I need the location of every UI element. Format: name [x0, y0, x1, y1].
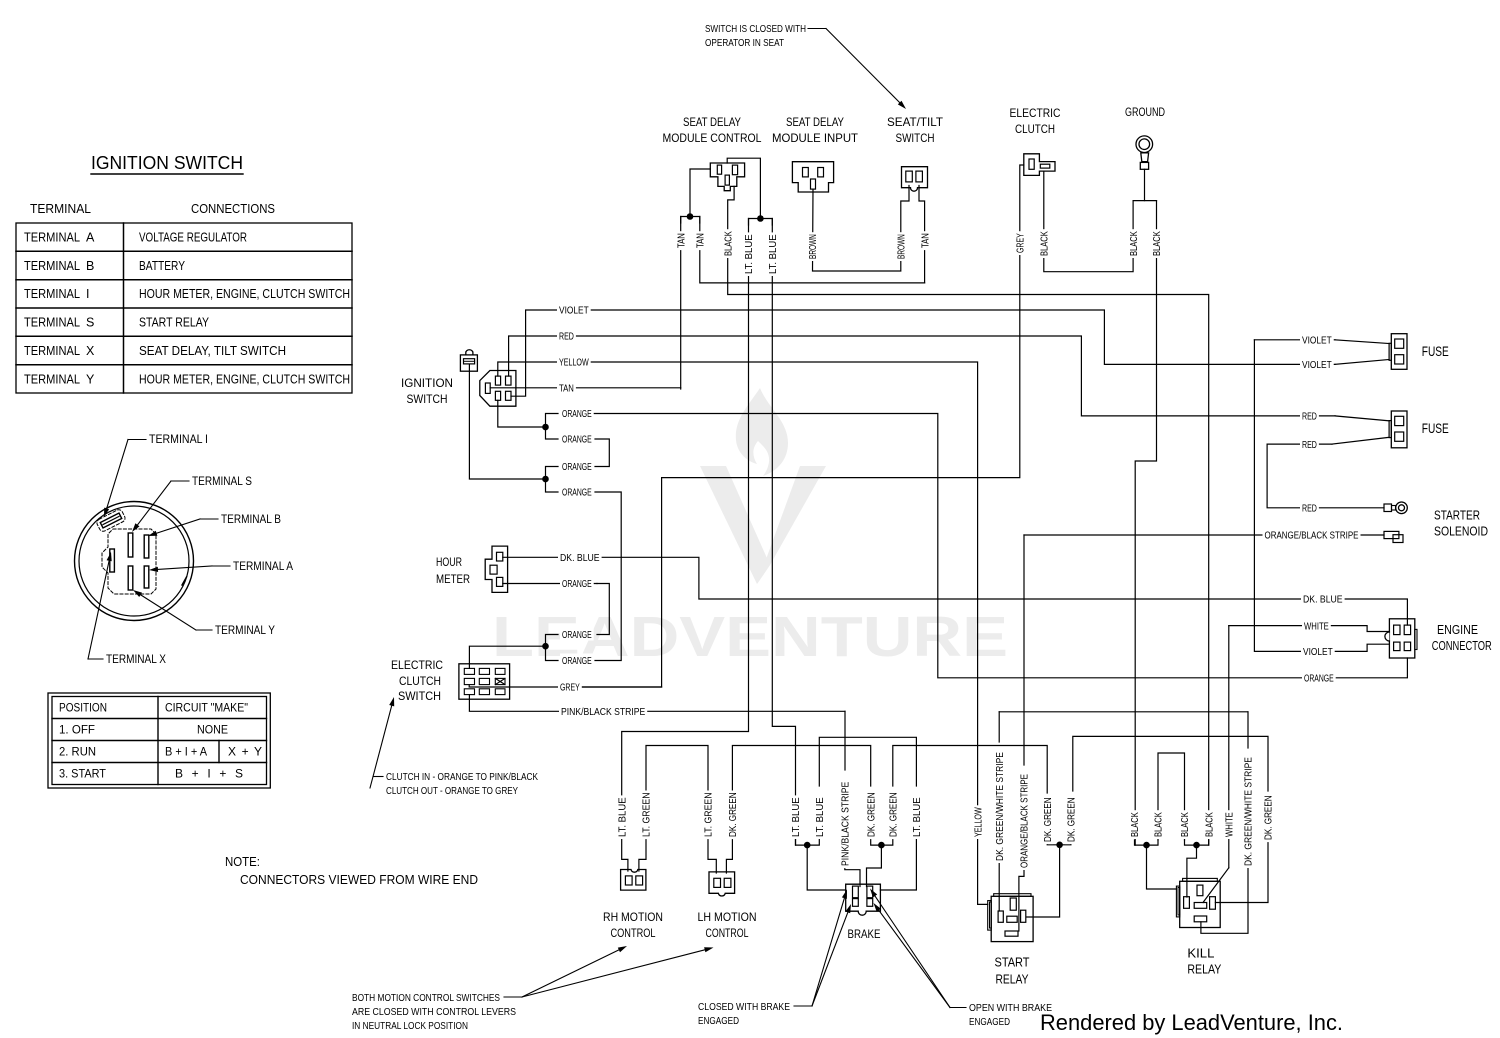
wire lt green lh into connector: [708, 836, 716, 873]
fuse 1: [1389, 334, 1407, 370]
svg-text:HOUR: HOUR: [436, 555, 462, 569]
electric clutch switch connector: [459, 664, 510, 699]
svg-text:B + I + A: B + I + A: [165, 745, 207, 759]
svg-text:TAN: TAN: [559, 383, 574, 395]
svg-text:ELECTRIC: ELECTRIC: [391, 658, 443, 672]
svg-text:TERMINAL: TERMINAL: [30, 201, 91, 216]
svg-text:TERMINAL X: TERMINAL X: [106, 654, 166, 666]
label brown seat tilt: [895, 232, 908, 261]
label pink/black stripe brake: [839, 780, 852, 868]
svg-text:LT. BLUE: LT. BLUE: [814, 797, 826, 837]
svg-text:RED: RED: [1302, 503, 1317, 515]
svg-text:B: B: [86, 259, 94, 273]
label orange 2: [560, 432, 594, 446]
wire dk green pair elbows start: [1047, 842, 1071, 845]
label white engine: [1302, 619, 1331, 633]
svg-text:ORANGE: ORANGE: [562, 461, 592, 473]
wire violet fuse1 top: [1254, 339, 1335, 341]
engine connector: [1385, 619, 1417, 658]
svg-text:HOUR METER, ENGINE, CLUTCH SWI: HOUR METER, ENGINE, CLUTCH SWITCH: [139, 287, 350, 301]
label tan col1: [675, 231, 688, 250]
wire red to starter solenoid: [1267, 444, 1384, 508]
label violet: [557, 303, 591, 317]
position / circuit make table: [48, 693, 270, 788]
label pink/black stripe: [559, 704, 647, 718]
label lt blue rh: [616, 795, 629, 839]
brake connector: [846, 884, 881, 915]
label yellow: [557, 355, 591, 369]
wire lt blue single into brake: [880, 836, 916, 890]
svg-text:FUSE: FUSE: [1422, 421, 1449, 436]
svg-text:PINK/BLACK STRIPE: PINK/BLACK STRIPE: [561, 706, 645, 718]
wire lt blue bridge brake pair: [819, 737, 916, 786]
svg-text:LT. BLUE: LT. BLUE: [790, 797, 802, 837]
junction black kill right: [1193, 842, 1200, 849]
svg-text:VIOLET: VIOLET: [1302, 335, 1332, 347]
key symbol: [460, 350, 477, 371]
svg-text:DK. GREEN/WHITE STRIPE: DK. GREEN/WHITE STRIPE: [1243, 757, 1255, 866]
label violet fuse bottom: [1300, 357, 1334, 371]
wire dk green into brake right pin: [867, 845, 882, 886]
label lt green rh: [640, 791, 653, 840]
wire dk green-white start: [998, 712, 1000, 742]
svg-text:YELLOW: YELLOW: [559, 357, 589, 369]
circle notch: [182, 577, 187, 585]
svg-text:OPERATOR IN SEAT: OPERATOR IN SEAT: [705, 37, 784, 49]
svg-text:ORANGE/BLACK STRIPE: ORANGE/BLACK STRIPE: [1265, 530, 1359, 542]
label tan col2: [694, 231, 707, 250]
svg-text:METER: METER: [436, 572, 470, 586]
svg-text:1. OFF: 1. OFF: [59, 723, 95, 737]
svg-text:TERMINAL B: TERMINAL B: [221, 514, 281, 526]
wire white engine-kill: [1228, 626, 1230, 810]
svg-text:A: A: [86, 231, 95, 245]
wire tan seat tilt: [919, 186, 925, 283]
svg-text:CONNECTIONS: CONNECTIONS: [191, 201, 275, 216]
label dk green/white start: [993, 750, 1006, 863]
svg-text:RELAY: RELAY: [1187, 963, 1222, 977]
svg-text:CONTROL: CONTROL: [706, 926, 749, 940]
terminal Y pin: [128, 566, 133, 590]
junction orange c: [542, 643, 549, 650]
svg-text:ORANGE: ORANGE: [562, 578, 592, 590]
wire orange 1-2 left link: [546, 414, 559, 440]
wire grey electric clutch: [580, 165, 1024, 687]
label orange 5: [560, 577, 594, 591]
wire pink black from clutch switch: [469, 695, 845, 712]
wire yellow ignition: [498, 362, 988, 904]
svg-text:DK. BLUE: DK. BLUE: [1303, 594, 1343, 606]
terminal X pin: [110, 549, 115, 572]
svg-text:RED: RED: [1302, 439, 1317, 451]
wire lt blue right column: [772, 219, 795, 846]
starter solenoid spade terminal: [1384, 531, 1403, 542]
wire tan right down and across: [700, 217, 925, 283]
wire black n-bridge kill: [1158, 753, 1185, 840]
label dk green kill: [1262, 794, 1275, 843]
label lt green lh: [702, 791, 715, 840]
kill relay connector: [1176, 878, 1220, 927]
junction dk green start: [1056, 842, 1063, 849]
svg-text:TERMINAL: TERMINAL: [24, 344, 80, 358]
svg-text:LT. BLUE: LT. BLUE: [743, 234, 755, 274]
svg-text:BLACK: BLACK: [1203, 812, 1215, 837]
svg-text:STARTER: STARTER: [1434, 508, 1480, 523]
junction lt blue split: [757, 215, 764, 222]
junction orange b: [542, 476, 549, 483]
wire orange feed from ignition: [498, 400, 546, 427]
wire black into kill relay pin: [1187, 845, 1197, 897]
wire dk green-white kill below label: [1201, 867, 1248, 933]
svg-text:SWITCH: SWITCH: [407, 392, 448, 406]
junction dk green brake: [878, 842, 885, 849]
watermark logo flame V: [700, 388, 826, 584]
svg-text:ORANGE: ORANGE: [562, 487, 592, 499]
svg-text:CLUTCH: CLUTCH: [1015, 122, 1055, 136]
arrow to clutch switch: [370, 706, 392, 788]
svg-text:DK. GREEN: DK. GREEN: [888, 792, 900, 837]
ground ring terminal: [1136, 136, 1153, 169]
svg-text:BLACK: BLACK: [1151, 231, 1163, 256]
svg-text:BLACK: BLACK: [1153, 812, 1165, 837]
label orange 3: [560, 460, 594, 474]
svg-text:TERMINAL: TERMINAL: [24, 259, 80, 273]
wire tan left down to ignition tan line: [680, 217, 682, 390]
svg-text:SOLENOID: SOLENOID: [1434, 524, 1488, 539]
svg-text:BLACK: BLACK: [722, 231, 734, 256]
label orange 7: [560, 654, 594, 668]
svg-text:RELAY: RELAY: [996, 973, 1030, 987]
label yellow start relay: [972, 805, 985, 839]
label black kill 4: [1203, 810, 1216, 839]
terminal A pin: [144, 566, 149, 588]
label black clutch: [1038, 229, 1051, 258]
label lt blue col2: [766, 232, 779, 276]
label red solenoid: [1300, 501, 1319, 515]
wire dk green into start relay: [1027, 845, 1060, 917]
junction tan split: [687, 213, 694, 220]
label tan seat tilt: [919, 231, 932, 250]
label black ground 1: [1127, 229, 1140, 258]
svg-text:TERMINAL: TERMINAL: [24, 372, 80, 386]
svg-text:BLACK: BLACK: [1128, 231, 1140, 256]
wire tan split bar: [681, 217, 700, 224]
wire red fuse2 top slant: [1335, 416, 1389, 421]
svg-text:SEAT DELAY: SEAT DELAY: [683, 115, 741, 129]
terminal B pin: [144, 535, 149, 558]
svg-text:GROUND: GROUND: [1125, 105, 1165, 119]
wire orange-black label to spade: [1357, 534, 1384, 536]
svg-text:POSITION: POSITION: [59, 701, 107, 715]
label black ground 2: [1151, 229, 1164, 258]
label dk blue engine: [1301, 592, 1345, 606]
svg-text:LT. GREEN: LT. GREEN: [703, 792, 715, 837]
svg-text:ENGAGED: ENGAGED: [969, 1016, 1010, 1028]
seat delay module input connector: [792, 162, 833, 192]
svg-text:X + Y: X + Y: [228, 745, 262, 759]
svg-text:IGNITION SWITCH: IGNITION SWITCH: [91, 152, 243, 173]
svg-text:ORANGE: ORANGE: [562, 655, 592, 667]
svg-text:LT. BLUE: LT. BLUE: [616, 797, 628, 837]
wire dk green bridge brake-start: [893, 746, 1047, 794]
svg-text:TERMINAL I: TERMINAL I: [149, 434, 208, 446]
label orange engine: [1302, 671, 1336, 685]
svg-text:BLACK: BLACK: [1039, 231, 1051, 256]
wire lt blue left column: [622, 219, 749, 872]
wire dk blue hour meter: [503, 557, 1408, 625]
svg-text:BLACK: BLACK: [1129, 812, 1141, 837]
svg-text:DK. BLUE: DK. BLUE: [560, 552, 600, 564]
svg-text:DK. GREEN/WHITE STRIPE: DK. GREEN/WHITE STRIPE: [994, 752, 1006, 861]
svg-text:3. START: 3. START: [59, 767, 107, 781]
svg-text:Y: Y: [86, 372, 95, 386]
wire lt blue into brake left: [807, 845, 846, 890]
wire violet fuse-engine trunk: [1254, 340, 1303, 652]
start relay connector: [988, 894, 1033, 942]
wire black into kill relay left: [1147, 845, 1177, 889]
seat/tilt switch connector: [902, 167, 928, 192]
label white kill: [1223, 810, 1236, 839]
wire violet into engine connector: [1333, 644, 1389, 651]
svg-text:DK. GREEN: DK. GREEN: [865, 792, 877, 837]
svg-text:VIOLET: VIOLET: [559, 305, 589, 317]
wire orange 4-7 right link: [595, 492, 621, 661]
label lt blue brake 2: [813, 795, 826, 839]
svg-text:TERMINAL: TERMINAL: [24, 287, 80, 301]
svg-text:MODULE CONTROL: MODULE CONTROL: [663, 131, 762, 145]
wire orange-black to spade: [1024, 534, 1264, 536]
terminal connections table: [16, 223, 352, 393]
wire orange1 long: [592, 414, 1304, 678]
wire white into engine connector: [1330, 626, 1389, 632]
wire dk green pair elbows brake: [871, 836, 893, 845]
label dk green lh: [726, 791, 739, 840]
svg-text:SEAT DELAY: SEAT DELAY: [786, 115, 844, 129]
svg-text:BLACK: BLACK: [1179, 812, 1191, 837]
svg-text:DK. GREEN: DK. GREEN: [1263, 795, 1275, 840]
wire module control left to junction: [690, 169, 710, 217]
svg-text:VIOLET: VIOLET: [1302, 359, 1332, 371]
svg-text:ORANGE: ORANGE: [562, 408, 592, 420]
label lt blue col1: [743, 232, 756, 276]
junction orange a: [542, 424, 549, 431]
wire pink black down to brake: [844, 711, 846, 770]
label grey clutch: [1014, 231, 1027, 255]
wire violet ignition: [511, 310, 1335, 396]
wire ground stem: [1144, 169, 1146, 200]
wire orange-black stripe column: [1023, 535, 1025, 765]
svg-text:CONNECTORS VIEWED FROM WIRE EN: CONNECTORS VIEWED FROM WIRE END: [240, 873, 478, 887]
wire brown module input: [813, 186, 910, 272]
wire tan ignition: [490, 387, 681, 389]
label dk green start 1: [1041, 796, 1054, 845]
svg-text:LT. BLUE: LT. BLUE: [767, 234, 779, 274]
svg-text:VIOLET: VIOLET: [1303, 646, 1333, 658]
wire orange 6-7 left link to clutch switch: [546, 635, 559, 661]
svg-text:VOLTAGE REGULATOR: VOLTAGE REGULATOR: [139, 231, 247, 245]
svg-text:I: I: [86, 287, 89, 301]
svg-text:NONE: NONE: [197, 723, 228, 737]
lh motion control connector: [709, 872, 735, 896]
wire white diagonal into kill relay: [1203, 868, 1229, 903]
wire lt blue split bar: [749, 219, 773, 226]
svg-text:CLUTCH IN - ORANGE TO PINK/BLA: CLUTCH IN - ORANGE TO PINK/BLACK: [386, 771, 538, 783]
svg-text:CLUTCH OUT - ORANGE TO GREY: CLUTCH OUT - ORANGE TO GREY: [386, 785, 518, 797]
svg-text:2. RUN: 2. RUN: [59, 745, 96, 759]
fuse 2: [1389, 411, 1407, 448]
wire orange 3-4 left link: [546, 467, 559, 493]
junction lt blue brake: [804, 842, 811, 849]
wire violet fuse1 top slant: [1335, 340, 1389, 344]
svg-text:Rendered by LeadVenture, Inc.: Rendered by LeadVenture, Inc.: [1040, 1010, 1343, 1035]
svg-text:START RELAY: START RELAY: [139, 316, 210, 330]
dashed terminal region: [102, 529, 156, 594]
svg-text:GREY: GREY: [1015, 233, 1027, 253]
svg-text:TAN: TAN: [675, 233, 687, 248]
svg-text:KILL: KILL: [1187, 947, 1214, 961]
wire dk green kill below label: [1215, 840, 1268, 903]
svg-text:ENGAGED: ENGAGED: [698, 1015, 739, 1027]
wire lt green bridge rh-lh: [646, 746, 708, 837]
svg-text:TERMINAL: TERMINAL: [24, 316, 80, 330]
ignition switch face inner circle: [79, 506, 189, 616]
wire key to orange junction: [469, 364, 545, 479]
wire to electric clutch switch top: [469, 646, 545, 668]
svg-text:LH MOTION: LH MOTION: [698, 910, 757, 924]
label orange 4: [560, 485, 594, 499]
svg-text:ORANGE/BLACK STRIPE: ORANGE/BLACK STRIPE: [1019, 774, 1031, 868]
svg-text:SWITCH: SWITCH: [398, 689, 441, 703]
svg-text:RED: RED: [1302, 411, 1317, 423]
label lt blue brake 3: [910, 795, 923, 839]
svg-text:MODULE INPUT: MODULE INPUT: [772, 131, 859, 145]
svg-text:BATTERY: BATTERY: [139, 259, 186, 273]
wire red fuse2 bottom slant: [1332, 437, 1389, 444]
label orange/black stripe solenoid: [1263, 528, 1361, 542]
svg-text:TERMINAL A: TERMINAL A: [233, 561, 293, 573]
svg-text:TAN: TAN: [695, 233, 707, 248]
svg-text:IN NEUTRAL LOCK POSITION: IN NEUTRAL LOCK POSITION: [352, 1020, 468, 1032]
svg-text:DK. GREEN: DK. GREEN: [1066, 797, 1078, 842]
leader to motion controls: [504, 996, 522, 998]
wire module control top to lt blue junction: [727, 158, 760, 218]
wire ground black right trunk: [1135, 201, 1156, 846]
key slot terminal I: [96, 508, 127, 532]
label brown module input: [807, 232, 820, 261]
svg-text:DK. GREEN: DK. GREEN: [727, 792, 739, 837]
wire grey from clutch switch: [469, 685, 661, 687]
label grey: [558, 680, 582, 694]
wire violet fuse1 bottom slant: [1335, 360, 1389, 365]
svg-text:SWITCH: SWITCH: [896, 131, 935, 145]
label dk green brake 1: [865, 791, 878, 840]
terminal S pin: [128, 533, 133, 557]
wire black pair elbows kill 1: [1135, 840, 1159, 845]
wire black electric clutch: [1044, 171, 1133, 272]
svg-text:NOTE:: NOTE:: [225, 855, 260, 869]
hour meter connector: [485, 546, 507, 592]
svg-text:ARE CLOSED WITH CONTROL LEVERS: ARE CLOSED WITH CONTROL LEVERS: [352, 1006, 516, 1018]
svg-text:SEAT DELAY, TILT SWITCH: SEAT DELAY, TILT SWITCH: [139, 344, 286, 358]
svg-text:CONTROL: CONTROL: [611, 926, 656, 940]
wire orange hour meter: [503, 583, 597, 585]
wire dk green-white kill column: [1247, 712, 1249, 748]
svg-text:ORANGE: ORANGE: [562, 629, 592, 641]
wire orange 2-3 right link: [595, 439, 609, 467]
svg-text:BRAKE: BRAKE: [848, 927, 881, 941]
starter solenoid ring terminal: [1384, 502, 1407, 514]
svg-text:ORANGE: ORANGE: [1304, 673, 1334, 685]
svg-text:LT. GREEN: LT. GREEN: [641, 792, 653, 837]
label black kill 3: [1179, 810, 1192, 839]
wire dk green-white bridge: [999, 711, 1248, 713]
wire orange engine into connector: [1333, 658, 1407, 678]
wire dk green bridge start-kill: [1073, 736, 1268, 791]
label orange 6: [560, 628, 594, 642]
wire red fuse2 bottom: [1267, 443, 1332, 445]
svg-text:ENGINE: ENGINE: [1437, 622, 1478, 637]
seat delay module control connector: [710, 163, 744, 191]
svg-text:DK. GREEN: DK. GREEN: [1042, 797, 1054, 842]
svg-text:GREY: GREY: [560, 682, 580, 694]
wire pink black below label to brake: [845, 865, 860, 887]
wire orange-black below label: [1019, 868, 1024, 931]
X mark pin: [495, 678, 505, 684]
label black kill 2: [1152, 810, 1165, 839]
svg-text:LT. BLUE: LT. BLUE: [911, 797, 923, 837]
svg-text:TERMINAL S: TERMINAL S: [192, 476, 252, 488]
label orange/black start: [1018, 772, 1031, 870]
label lt blue brake 1: [790, 795, 803, 839]
label tan ignition: [557, 381, 576, 395]
wire black from module control: [728, 186, 1209, 845]
svg-text:RH MOTION: RH MOTION: [603, 910, 663, 924]
wire red ignition: [509, 336, 1335, 416]
svg-text:CIRCUIT "MAKE": CIRCUIT "MAKE": [165, 701, 248, 715]
svg-text:X: X: [86, 344, 95, 358]
wire black pair elbows kill 2: [1185, 840, 1209, 845]
label orange 1: [560, 407, 594, 421]
wire dk green bridge lh-brake: [732, 746, 870, 837]
svg-text:HOUR METER, ENGINE, CLUTCH SWI: HOUR METER, ENGINE, CLUTCH SWITCH: [139, 372, 350, 386]
wire dk green lh into connector: [726, 836, 732, 873]
label black module control: [722, 229, 735, 258]
svg-text:YELLOW: YELLOW: [972, 807, 984, 837]
svg-text:ORANGE: ORANGE: [562, 434, 592, 446]
rh motion control connector: [621, 870, 646, 891]
svg-text:BROWN: BROWN: [896, 234, 908, 259]
svg-text:CLOSED WITH BRAKE: CLOSED WITH BRAKE: [698, 1001, 790, 1013]
svg-text:CONNECTOR: CONNECTOR: [1432, 638, 1492, 653]
svg-text:START: START: [995, 956, 1030, 970]
electric clutch connector: [1024, 154, 1055, 176]
label black kill 1: [1129, 810, 1142, 839]
svg-text:TAN: TAN: [919, 233, 931, 248]
svg-text:S: S: [86, 316, 94, 330]
svg-text:CLUTCH: CLUTCH: [399, 674, 441, 688]
wire ground split bar: [1133, 200, 1156, 202]
svg-text:TERMINAL Y: TERMINAL Y: [215, 625, 275, 637]
wire lt green rh into connector: [639, 836, 646, 871]
label violet engine: [1301, 644, 1335, 658]
label red fuse top: [1300, 409, 1319, 423]
wire dk green-white into start relay: [998, 861, 1000, 911]
wire white engine connector: [1229, 625, 1304, 627]
svg-text:ELECTRIC: ELECTRIC: [1010, 106, 1061, 120]
wire lt blue pair elbows brake: [796, 836, 820, 845]
svg-text:WHITE: WHITE: [1224, 812, 1236, 837]
svg-text:SWITCH IS CLOSED WITH: SWITCH IS CLOSED WITH: [705, 23, 806, 35]
